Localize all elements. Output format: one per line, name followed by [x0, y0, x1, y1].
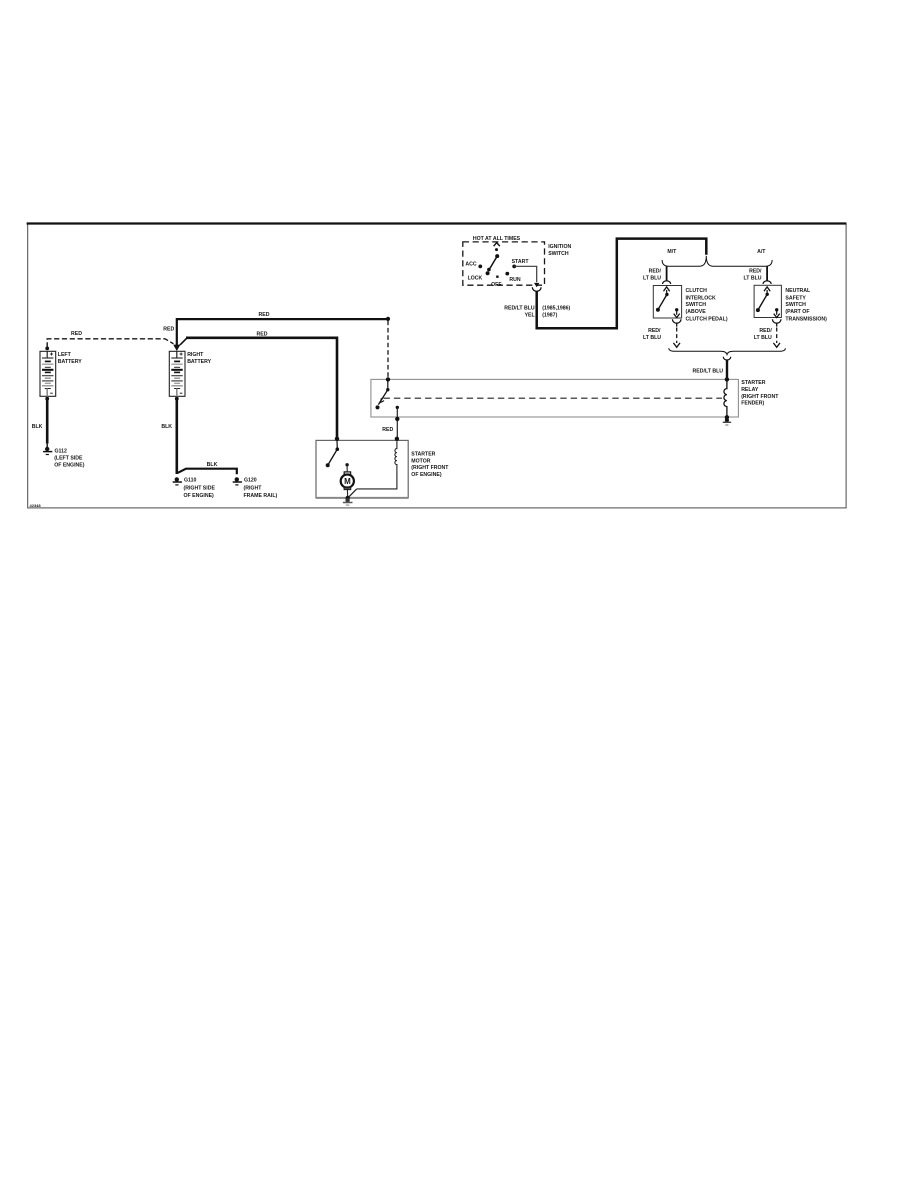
node battery negative junction [45, 397, 49, 401]
svg-text:TRANSMISSION): TRANSMISSION) [785, 316, 827, 322]
svg-text:RELAY: RELAY [741, 387, 759, 393]
svg-text:RED/: RED/ [649, 268, 662, 274]
svg-text:(RIGHT SIDE: (RIGHT SIDE [184, 486, 216, 492]
starter relay K1 box [371, 379, 739, 417]
wire RED horizontal battery to relay branch [177, 318, 388, 320]
svg-text:42348: 42348 [30, 503, 42, 508]
svg-text:RED/LT BLU: RED/LT BLU [693, 368, 724, 374]
svg-text:RED: RED [257, 331, 268, 337]
svg-text:CLUTCH PEDAL): CLUTCH PEDAL) [686, 316, 728, 322]
svg-text:FRAME RAIL): FRAME RAIL) [244, 493, 278, 499]
svg-text:BATTERY: BATTERY [58, 359, 82, 365]
solenoid switch contacts [326, 440, 339, 467]
svg-text:G112: G112 [55, 448, 68, 454]
node START contact [512, 265, 516, 269]
svg-text:YEL: YEL [525, 313, 536, 319]
connector at clutch interlock switch [663, 281, 671, 284]
wire RED/LT BLU dashed from clutch interlock switch [676, 328, 678, 344]
svg-text:RED/: RED/ [749, 268, 762, 274]
svg-text:RED: RED [71, 331, 82, 337]
node solenoid feed junction [335, 437, 339, 441]
svg-text:LT BLU: LT BLU [743, 276, 761, 282]
svg-text:G110: G110 [184, 478, 197, 484]
clutch interlock switch S2 [653, 286, 681, 319]
svg-text:BLK: BLK [207, 462, 218, 468]
svg-text:SWITCH: SWITCH [686, 302, 707, 308]
ground G112 [43, 444, 52, 455]
svg-text:INTERLOCK: INTERLOCK [686, 295, 717, 301]
svg-text:RED: RED [259, 312, 270, 318]
svg-text:FENDER): FENDER) [741, 401, 764, 407]
svg-text:(1985,1986): (1985,1986) [542, 305, 570, 311]
neutral safety switch S3 [754, 285, 781, 317]
svg-text:RED/: RED/ [759, 328, 772, 334]
svg-text:OF ENGINE): OF ENGINE) [54, 462, 85, 468]
wire RED/LT BLU dashed from neutral safety switch [776, 328, 778, 344]
battery RIGHT BATTERY [169, 351, 185, 396]
ground at starter motor [343, 498, 353, 505]
wire RED dashed from left battery to right battery [47, 339, 173, 348]
wire RED/LT BLU / YEL thick from ignition to M/T A/T split [537, 239, 707, 329]
svg-text:IGNITION: IGNITION [548, 244, 571, 250]
svg-text:OF ENGINE): OF ENGINE) [411, 472, 442, 478]
border frame [27, 224, 847, 508]
starter motor M1 box [316, 440, 408, 498]
svg-text:LT BLU: LT BLU [754, 335, 772, 341]
svg-text:MOTOR: MOTOR [411, 458, 430, 464]
svg-text:RUN: RUN [509, 277, 520, 283]
svg-text:(RIGHT FRONT: (RIGHT FRONT [741, 394, 779, 400]
node feed arrow into right battery positive [173, 345, 180, 351]
svg-text:RED: RED [163, 326, 174, 332]
motor M armature [341, 465, 354, 498]
wire RED relay output to starter motor [396, 407, 398, 438]
solenoid moving contact [348, 489, 356, 498]
connector below neutral safety switch [772, 319, 781, 323]
svg-text:A/T: A/T [757, 249, 766, 255]
battery LEFT BATTERY [40, 351, 56, 396]
svg-text:(RIGHT FRONT: (RIGHT FRONT [411, 465, 449, 471]
node battery positive junction [45, 347, 49, 351]
node relay output contact [396, 406, 399, 409]
svg-text:BATTERY: BATTERY [187, 359, 211, 365]
svg-text:LT BLU: LT BLU [643, 276, 661, 282]
svg-text:CLUTCH: CLUTCH [686, 288, 708, 294]
svg-text:RED/LT BLU: RED/LT BLU [504, 305, 535, 311]
svg-text:BLK: BLK [32, 424, 43, 430]
node LOCK contact [486, 271, 490, 275]
svg-text:SWITCH: SWITCH [548, 251, 569, 257]
wire RED/LT BLU to neutral safety switch [766, 266, 768, 281]
svg-text:SAFETY: SAFETY [785, 295, 806, 301]
ground at starter relay [723, 418, 731, 425]
wire RED horizontal battery to starter motor [186, 338, 337, 439]
svg-text:M/T: M/T [667, 249, 677, 255]
svg-text:ACC: ACC [465, 262, 476, 268]
wire RED/LT BLU to starter relay [726, 360, 728, 379]
svg-text:RIGHT: RIGHT [187, 352, 204, 358]
svg-text:LOCK: LOCK [468, 276, 483, 282]
svg-text:SWITCH: SWITCH [785, 302, 806, 308]
node OFF contact [496, 276, 498, 278]
wire BLK right battery to grounds [176, 399, 179, 474]
node relay coil input junction [725, 377, 729, 381]
connector above starter relay [723, 357, 730, 360]
node junction dot [386, 317, 390, 321]
node junction on relay box edge [395, 417, 399, 421]
node solenoid pull-in junction [395, 437, 399, 441]
relay mechanical linkage dashed [384, 397, 723, 399]
svg-text:RED/: RED/ [648, 328, 661, 334]
wire BLK left battery to ground [46, 399, 49, 444]
node battery negative junction [175, 397, 179, 401]
solenoid pull-in coil [357, 440, 397, 489]
ignition switch lever [495, 254, 499, 258]
wire BLK branch to right frame rail ground [178, 469, 237, 475]
brace split M/T A/T [662, 256, 772, 266]
node motor input contact [345, 463, 348, 466]
node relay input junction [386, 377, 390, 381]
svg-text:OFF: OFF [491, 282, 501, 288]
svg-text:M: M [344, 477, 351, 486]
svg-text:BLK: BLK [161, 424, 172, 430]
node ACC contact [478, 265, 482, 269]
connector below ignition switch [532, 283, 541, 291]
svg-text:RED: RED [382, 427, 393, 433]
relay coil [724, 381, 727, 418]
svg-text:(LEFT SIDE: (LEFT SIDE [54, 456, 83, 462]
wire RED right battery riser [176, 318, 178, 346]
connector below clutch interlock switch [672, 319, 681, 323]
svg-text:STARTER: STARTER [741, 380, 765, 386]
svg-text:(RIGHT: (RIGHT [244, 486, 263, 492]
svg-text:START: START [512, 259, 530, 265]
node RUN contact [505, 272, 509, 276]
svg-text:LEFT: LEFT [58, 352, 72, 358]
connector at neutral safety switch [763, 281, 771, 284]
ground G120 [233, 477, 242, 485]
node motor ground junction [346, 496, 350, 500]
relay switch contacts [376, 379, 390, 409]
svg-text:HOT AT ALL TIMES: HOT AT ALL TIMES [473, 236, 521, 242]
wire from START contact [514, 266, 537, 282]
svg-text:OF ENGINE): OF ENGINE) [184, 493, 215, 499]
svg-text:(ABOVE: (ABOVE [686, 309, 707, 315]
wire RED dashed to starter relay [387, 321, 389, 380]
svg-text:NEUTRAL: NEUTRAL [785, 288, 811, 294]
wire RED/LT BLU to clutch interlock switch [666, 266, 668, 281]
svg-text:(PART OF: (PART OF [785, 309, 809, 315]
svg-text:STARTER: STARTER [411, 452, 435, 458]
svg-text:G120: G120 [244, 478, 257, 484]
node ignition feed contact [495, 248, 498, 251]
svg-text:(1987): (1987) [542, 313, 557, 319]
ignition switch feed arrow [494, 243, 500, 246]
ground G110 [173, 477, 182, 485]
svg-text:LT BLU: LT BLU [643, 335, 661, 341]
node relay coil ground junction [725, 415, 729, 419]
brace merge to starter relay [669, 348, 786, 355]
ignition switch S1 dashed box [463, 242, 545, 285]
